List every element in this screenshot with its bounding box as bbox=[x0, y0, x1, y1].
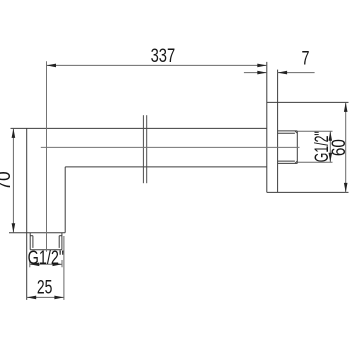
dimension 60: top arrowhead bbox=[344, 102, 348, 112]
shower arm body: vertical tube left edge (continues as 25-dim extension line) bbox=[26, 128, 28, 300]
bottom male thread: right runout tick bbox=[59, 235, 62, 237]
shower arm body: bottom shoulder line (with 70-dim extension at left) bbox=[9, 232, 65, 234]
dimension 337: left arrowhead bbox=[47, 64, 57, 68]
dimension G1/2 right: line bbox=[329, 131, 331, 162]
dimension G1/2 bottom: right arrowhead bbox=[53, 263, 63, 267]
dimension 25: line bbox=[27, 296, 64, 298]
vertical centerline (continues up as 337-dim left extension) bbox=[46, 61, 48, 252]
wall flange: bottom edge (continues right as 60-dim bottom extension) bbox=[267, 191, 349, 193]
dimension G1/2 right: top arrowhead bbox=[329, 131, 333, 141]
dimension 337: right arrowhead bbox=[257, 64, 267, 68]
shower arm body: horizontal tube top edge (with 70-dim extension at left) bbox=[11, 127, 267, 129]
dimension G1/2 bottom: left extension tick bbox=[29, 260, 31, 267]
bottom male thread: right crest edge bbox=[61, 233, 63, 250]
dimension 337: line bbox=[47, 64, 267, 66]
wall-side nipple: top chamfer bbox=[295, 131, 297, 133]
svg-text:G1/2": G1/2" bbox=[312, 131, 333, 162]
bottom male thread: left root line bbox=[32, 236, 34, 248]
dimension G1/2 bottom: right extension tick bbox=[61, 260, 63, 267]
wall-side nipple: bottom crest line bbox=[278, 162, 298, 164]
horizontal centerline bbox=[41, 146, 300, 148]
dimension G1/2 right: bottom arrowhead bbox=[329, 153, 333, 163]
dimension 25: right extension line bbox=[63, 236, 65, 300]
bottom male thread: left runout tick bbox=[30, 235, 33, 237]
wall flange: top edge (continues right as 60-dim top extension) bbox=[267, 101, 349, 103]
svg-text:7: 7 bbox=[302, 49, 310, 70]
wall flange: left edge (doubles as 337-dim right extension above) bbox=[266, 62, 268, 193]
dimension 70: top arrowhead bbox=[12, 128, 16, 138]
dimension 70: line bbox=[12, 128, 14, 232]
dimension 70: bottom arrowhead bbox=[12, 223, 16, 233]
wall-side nipple: bottom chamfer bbox=[295, 161, 297, 163]
svg-text:G1/2": G1/2" bbox=[28, 248, 64, 269]
wall-side nipple: bottom root line bbox=[278, 160, 295, 162]
wall-side nipple: top crest line bbox=[278, 130, 298, 132]
dimension 7: right leader with left-pointing arrowhead bbox=[278, 72, 315, 74]
shower arm body: horizontal tube bottom edge bbox=[65, 166, 267, 168]
svg-text:70: 70 bbox=[0, 171, 15, 190]
shower arm body: elbow inner corner vertical edge bbox=[64, 167, 66, 233]
dimension G1/2 bottom: left arrowhead bbox=[30, 263, 40, 267]
break lines on horizontal tube bbox=[142, 115, 144, 183]
svg-text:25: 25 bbox=[37, 278, 53, 299]
bottom male thread: end face bbox=[30, 249, 62, 251]
dimension 60: bottom arrowhead bbox=[344, 183, 348, 193]
dimension 25: left arrowhead bbox=[27, 296, 37, 300]
dimension 25: right arrowhead bbox=[54, 296, 64, 300]
dimension G1/2 right: bottom extension line bbox=[298, 161, 333, 163]
dimension 7: left leader with right-pointing arrowhead bbox=[244, 72, 267, 74]
dimension 60: line bbox=[345, 102, 347, 192]
bottom male thread: left crest edge bbox=[29, 233, 31, 250]
bottom male thread: right root line bbox=[58, 236, 60, 248]
wall-side nipple: end face bbox=[296, 131, 298, 164]
wall-side nipple: top root line bbox=[278, 132, 295, 134]
dimension G1/2 bottom: line bbox=[30, 263, 62, 265]
svg-text:337: 337 bbox=[151, 46, 176, 67]
dimension G1/2 right: top extension line bbox=[298, 130, 333, 132]
wall flange: right edge (doubles as 7-dim right extension above) bbox=[277, 70, 279, 193]
